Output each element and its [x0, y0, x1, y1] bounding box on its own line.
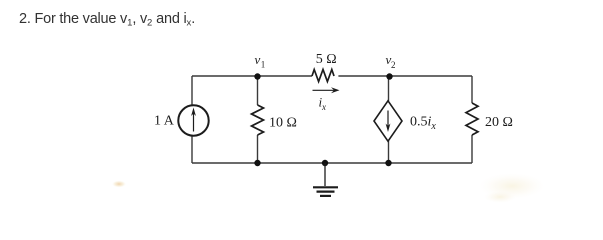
wire v1 branch vertical	[257, 76, 259, 163]
wire top-right: top rail from 5-ohm resistor to right corner	[338, 75, 472, 77]
current source I1 1A circle	[178, 105, 208, 135]
svg-text:x: x	[321, 102, 326, 112]
resistor R2 5 ohm (horizontal zigzag on top rail)	[312, 70, 334, 82]
label v1	[255, 52, 266, 70]
resistor R1 10 ohm (vertical zigzag)	[252, 105, 264, 135]
svg-text:1: 1	[261, 60, 266, 70]
wire left vertical	[191, 76, 193, 163]
resistor R3 20 ohm (vertical zigzag right)	[466, 103, 478, 135]
node v2 dot	[386, 73, 392, 79]
svg-text:10 Ω: 10 Ω	[269, 115, 297, 130]
svg-text:v: v	[255, 52, 261, 67]
svg-text:20 Ω: 20 Ω	[485, 115, 513, 130]
label 10 ohm	[269, 115, 297, 130]
scan smudge right	[479, 173, 545, 203]
wire bottom rail	[192, 162, 472, 164]
wire top-left: top rail from left corner to v1 node	[192, 75, 312, 77]
label 0.5ix	[410, 115, 436, 133]
wire v2 branch vertical	[388, 76, 390, 163]
dependent source U1 diamond 0.5ix	[374, 101, 402, 141]
node bottom-ground dot	[322, 160, 328, 166]
svg-text:1 A: 1 A	[154, 113, 175, 128]
ground symbol	[313, 163, 338, 196]
wire right vertical	[471, 76, 473, 163]
label 20 ohm	[485, 115, 513, 130]
label 5 ohm	[316, 52, 337, 67]
node bottom-v2 dot	[385, 160, 391, 166]
dependent source arrow (down)	[386, 111, 391, 133]
problem title	[19, 11, 195, 27]
label v2	[386, 52, 396, 70]
svg-text:5 Ω: 5 Ω	[316, 52, 337, 67]
svg-text:2: 2	[391, 60, 396, 70]
node v1 dot	[254, 73, 260, 79]
node bottom-v1 dot	[254, 160, 260, 166]
ix current arrow under R2	[313, 87, 340, 93]
current source I1 arrow (up)	[191, 108, 196, 132]
label ix	[319, 95, 327, 113]
scan smudge left	[112, 181, 126, 188]
label 1 A	[154, 113, 175, 128]
svg-text:0.5ix: 0.5ix	[410, 115, 436, 133]
